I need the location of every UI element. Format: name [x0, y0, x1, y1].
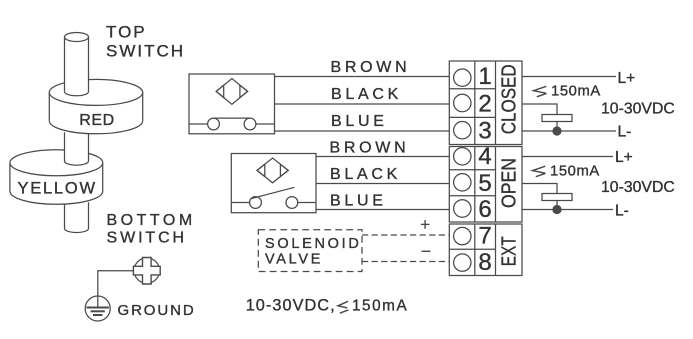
- svg-text:L-: L-: [615, 203, 629, 220]
- wire BLUE bottom: [316, 209, 449, 211]
- junction node closed: [553, 127, 561, 135]
- NC contact top switch: [189, 118, 275, 130]
- svg-text:4: 4: [478, 143, 491, 170]
- shaft bottom segment: [65, 202, 89, 232]
- wire conduit to ground: [98, 271, 135, 308]
- conduit entry symbol: [133, 258, 160, 285]
- svg-text:L-: L-: [618, 124, 632, 141]
- load resistor closed: [542, 115, 572, 122]
- node plus sign: [421, 220, 430, 229]
- load resistor open: [542, 194, 572, 201]
- svg-text:3: 3: [478, 118, 491, 145]
- svg-text:10-30VDC: 10-30VDC: [601, 179, 675, 196]
- svg-text:RED: RED: [79, 112, 115, 129]
- terminal block OPEN group: [449, 147, 522, 223]
- svg-text:10-30VDC: 10-30VDC: [601, 100, 675, 117]
- svg-text:BLACK: BLACK: [331, 86, 402, 103]
- svg-text:BLACK: BLACK: [330, 166, 401, 183]
- svg-text:BROWN: BROWN: [331, 59, 411, 76]
- ground symbol: [85, 296, 110, 321]
- bottom switch contact box: [231, 154, 316, 213]
- proximity symbol top switch U1: [216, 79, 247, 105]
- solenoid valve box: [258, 230, 362, 272]
- wire BROWN bottom: [316, 156, 449, 158]
- svg-text:5: 5: [478, 170, 491, 197]
- svg-text:CLOSED: CLOSED: [498, 64, 520, 134]
- wire BLUE top: [275, 130, 450, 132]
- svg-text:BOTTOM: BOTTOM: [107, 212, 196, 229]
- svg-text:10-30VDC,: 10-30VDC,: [246, 296, 336, 314]
- svg-text:BROWN: BROWN: [330, 140, 410, 157]
- top switch contact box: [189, 74, 275, 134]
- svg-text:SWITCH: SWITCH: [106, 42, 185, 61]
- wire BROWN top: [275, 76, 450, 78]
- wire L+ closed: [522, 76, 616, 78]
- svg-text:VALVE: VALVE: [265, 252, 323, 268]
- wire branch to load resistor closed: [522, 104, 557, 115]
- cam disk RED: [49, 79, 142, 133]
- wire BLACK top: [275, 103, 450, 105]
- wire L- closed: [522, 130, 616, 132]
- svg-text:BLUE: BLUE: [331, 113, 388, 130]
- wire solenoid minus: [362, 261, 449, 263]
- svg-text:1: 1: [478, 63, 491, 90]
- wire solenoid plus: [362, 234, 449, 236]
- svg-text:SWITCH: SWITCH: [107, 229, 188, 246]
- svg-text:150mA: 150mA: [352, 297, 408, 314]
- svg-text:7: 7: [478, 223, 491, 250]
- top switch shaft: [65, 33, 89, 96]
- svg-text:8: 8: [478, 249, 491, 276]
- svg-text:150mA: 150mA: [551, 83, 601, 99]
- svg-text:BLUE: BLUE: [330, 193, 387, 210]
- terminal block EXT group: [449, 224, 522, 276]
- label 150mA closed: [534, 86, 547, 97]
- svg-text:SOLENOID: SOLENOID: [265, 236, 362, 252]
- node minus sign: [422, 250, 431, 252]
- svg-text:GROUND: GROUND: [118, 302, 196, 319]
- proximity symbol bottom switch U2: [257, 158, 288, 183]
- wire branch to load resistor open: [522, 184, 557, 194]
- svg-text:EXT: EXT: [498, 236, 520, 266]
- wire BLACK bottom: [316, 183, 449, 185]
- svg-text:150mA: 150mA: [550, 163, 600, 179]
- svg-text:6: 6: [478, 196, 491, 223]
- svg-text:YELLOW: YELLOW: [18, 180, 97, 198]
- svg-text:L+: L+: [618, 70, 636, 87]
- svg-text:TOP: TOP: [106, 23, 147, 42]
- shaft middle segment: [65, 132, 89, 165]
- cam disk YELLOW: [10, 150, 103, 204]
- label 150mA open: [533, 166, 546, 177]
- svg-text:2: 2: [478, 91, 491, 118]
- svg-text:L+: L+: [615, 149, 633, 166]
- junction node open: [553, 206, 561, 214]
- svg-text:OPEN: OPEN: [498, 158, 520, 208]
- wire L- open: [522, 209, 613, 211]
- NO contact bottom switch: [231, 187, 316, 208]
- wire L+ open: [522, 156, 613, 158]
- terminal block CLOSED group: [449, 61, 522, 145]
